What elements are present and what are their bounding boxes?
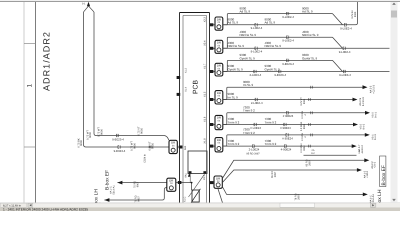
wire upper run (228, 112, 366, 114)
svg-text:04: 04 (172, 144, 175, 147)
svg-text:# L0E24: # L0E24 (250, 127, 261, 130)
wire upper tick (311, 86, 312, 89)
svg-text:9000: 9000 (354, 12, 357, 18)
svg-text:0.75 VT: 0.75 VT (300, 97, 303, 105)
wire riser (223, 87, 228, 99)
svg-text:9-L0E2-4: 9-L0E2-4 (339, 51, 351, 54)
svg-text:E014-A1: E014-A1 (372, 194, 375, 204)
svg-text:04: 04 (218, 95, 221, 98)
wire upper run (228, 36, 333, 38)
pin square X2.1 (210, 181, 214, 184)
svg-text:GynW SL 9: GynW SL 9 (228, 68, 244, 72)
cable W1 pair split (84, 6, 95, 12)
svg-text:9-E023-4: 9-E023-4 (112, 138, 124, 141)
svg-text:X1.8: X1.8 (203, 138, 206, 143)
pin wire X1.7 (210, 71, 216, 73)
svg-text:9 1: 9 1 (82, 3, 86, 6)
svg-text:9005: 9005 (140, 128, 143, 134)
svg-text:X2.1: X2.1 (203, 175, 206, 180)
svg-text:4: 4 (304, 136, 307, 138)
connector inline lower (254, 123, 256, 126)
pin wire X3.4 (210, 47, 216, 49)
connector inline lower (284, 145, 286, 148)
wire riser (223, 37, 228, 48)
svg-text:9005: 9005 (151, 143, 154, 149)
svg-text:9-E023-4: 9-E023-4 (114, 150, 126, 153)
svg-text:04: 04 (218, 67, 221, 70)
wire lower run (223, 124, 354, 126)
svg-text:NBrCw SL 9: NBrCw SL 9 (240, 34, 257, 38)
junction dot (191, 182, 193, 184)
svg-text:X3.3: X3.3 (203, 17, 206, 22)
svg-text:9000: 9000 (89, 132, 92, 138)
arrow to -box LH (104, 198, 109, 202)
connector inline upper (286, 111, 288, 114)
svg-text:Tmm 9 2: Tmm 9 2 (265, 121, 277, 125)
svg-text:X1.7: X1.7 (203, 64, 206, 69)
svg-text:AA 1-C: AA 1-C (369, 195, 372, 203)
svg-text:9004: 9004 (303, 124, 306, 130)
svg-text:2-L0E3-4: 2-L0E3-4 (250, 74, 262, 77)
svg-text:9A2: 9A2 (184, 146, 187, 150)
svg-text:2.0 WH: 2.0 WH (301, 111, 304, 119)
svg-text:DR: DR (217, 65, 221, 68)
vscroll up button (392, 3, 396, 5)
horizontal scrollbar row (0, 203, 400, 208)
svg-text:9000: 9000 (228, 18, 235, 22)
wire upper run (228, 134, 366, 136)
svg-text:9000: 9000 (240, 7, 247, 11)
wire RD to -box LH (104, 188, 166, 200)
connector U2L (167, 178, 176, 191)
vscroll down button (392, 199, 396, 202)
svg-text:04: 04 (218, 21, 221, 24)
pin wire X2.1 (210, 182, 215, 184)
svg-text:X3.4: X3.4 (203, 40, 206, 45)
resistor R1 diagonal (191, 189, 201, 203)
pin square X1.8 (210, 145, 214, 148)
wire lower run (223, 99, 353, 101)
svg-text:2A: 2A (312, 149, 315, 152)
svg-text:9300: 9300 (228, 65, 235, 69)
hscroll thumb (280, 203, 315, 207)
svg-text:Im SL 9: Im SL 9 (243, 84, 254, 88)
svg-text:NBrCw SL 9: NBrCw SL 9 (265, 45, 282, 49)
svg-text:J300: J300 (302, 30, 309, 34)
svg-text:7300: 7300 (243, 106, 250, 110)
connector inline lower (252, 145, 254, 148)
wire RD to B-box EF (117, 182, 166, 184)
svg-text:AA 1-C: AA 1-C (110, 186, 113, 194)
wire lower run (223, 24, 356, 26)
connector inline upper (287, 36, 289, 39)
svg-text:B-box EF: B-box EF (381, 165, 387, 185)
svg-text:J300: J300 (228, 42, 235, 46)
svg-text:X1.4: X1.4 (184, 87, 187, 92)
PCB inner top edge (183, 15, 207, 17)
svg-text:9-L0E2-4: 9-L0E2-4 (282, 40, 294, 43)
wire WT vertical leg (93, 12, 95, 134)
svg-text:X1.2: X1.2 (184, 68, 187, 73)
pin wire X1.5 (210, 99, 216, 101)
module U3 inside PCB (188, 151, 207, 174)
wire riser (223, 113, 228, 125)
svg-text:DR: DR (216, 177, 220, 180)
svg-text:Ad SL 9: Ad SL 9 (240, 10, 251, 14)
wire merge diagonal (333, 60, 343, 71)
svg-text:A2: A2 (361, 150, 364, 153)
scrollbar corner (377, 203, 400, 208)
page size label (1, 203, 27, 207)
svg-text:9000: 9000 (133, 143, 136, 149)
wire lower run (223, 47, 390, 49)
svg-text:Tmm 9 2: Tmm 9 2 (228, 143, 240, 147)
svg-text:1 - 2401 INTERIOR 24000 2400 L: 1 - 2401 INTERIOR 24000 2400 LH-RH ADR1/… (3, 208, 88, 211)
svg-text:Tmm 9 2: Tmm 9 2 (265, 143, 277, 147)
svg-text:2-L0E24: 2-L0E24 (249, 149, 260, 152)
svg-text:DR: DR (217, 92, 221, 95)
connector inline upper (287, 59, 289, 62)
svg-text:VS-2: VS-2 (360, 124, 363, 130)
wire BK vertical leg (83, 12, 85, 145)
svg-text:+24-2: +24-2 (361, 145, 364, 151)
svg-text:9-L0E2-4: 9-L0E2-4 (251, 51, 263, 54)
svg-text:9-L0E2-4: 9-L0E2-4 (340, 27, 352, 30)
wire riser (223, 14, 228, 25)
hscroll right button (371, 203, 376, 207)
net stub arrow inside PCB (188, 173, 191, 177)
pin square X1 bottom (178, 181, 182, 184)
svg-text:X1.6: X1.6 (203, 117, 206, 122)
svg-text:9004: 9004 (303, 145, 306, 151)
arrow to -box LH (363, 193, 368, 197)
PCB inner right edge (206, 16, 208, 203)
connector plug X1.6 (215, 115, 223, 129)
wire riser (223, 60, 228, 71)
svg-text:2.0 WH4: 2.0 WH4 (300, 143, 303, 152)
arrow right upper (365, 111, 370, 115)
svg-text:9-E023-4: 9-E023-4 (282, 63, 294, 66)
window top border (0, 0, 400, 2)
wire U to PCB connector (94, 134, 169, 141)
svg-text:DR: DR (217, 139, 221, 142)
component name B-box EF right (380, 156, 386, 187)
cable W1 off-page arrow (87, 2, 90, 6)
svg-text:AA 2-5: AA 2-5 (370, 86, 373, 93)
wire short net above fan (304, 154, 357, 156)
PCB inner left edge (182, 16, 184, 203)
svg-text:0.75 BK: 0.75 BK (351, 10, 354, 19)
svg-text:X1.5: X1.5 (203, 92, 206, 97)
arrow to B-box EF (117, 181, 122, 185)
svg-text:E014-A1: E014-A1 (112, 185, 115, 194)
wire U2L pin to PCB (176, 182, 192, 184)
svg-text:9000: 9000 (302, 7, 309, 11)
vscroll thumb (391, 11, 397, 18)
wire lower tick (309, 98, 310, 101)
wire riser (223, 135, 228, 146)
svg-text:9300: 9300 (302, 54, 309, 58)
connector plug X1.5 (215, 91, 223, 104)
connector U1L (169, 140, 177, 153)
svg-text:95 RD 2997: 95 RD 2997 (246, 152, 259, 155)
svg-text:J300: J300 (240, 30, 247, 34)
svg-text:9-L0E2-4: 9-L0E2-4 (282, 16, 294, 19)
svg-text:Ad SL 9: Ad SL 9 (302, 10, 313, 14)
frame row tick bottom (24, 146, 36, 148)
frame border line (35, 2, 37, 203)
svg-text:04: 04 (218, 44, 221, 47)
svg-text:NBrCw SL 9: NBrCw SL 9 (228, 45, 245, 49)
wire stub diagonal off box (218, 188, 223, 202)
svg-text:2997: 2997 (297, 194, 300, 200)
svg-text:PCB: PCB (193, 80, 200, 94)
svg-text:DR: DR (217, 42, 221, 45)
svg-text:# 90E24: # 90E24 (282, 137, 293, 140)
svg-text:2997: 2997 (308, 160, 311, 166)
sheet edge line (23, 2, 25, 203)
svg-text:GynW SL 9: GynW SL 9 (240, 57, 256, 61)
wire upper run (228, 13, 333, 15)
PCB outer left edge (179, 13, 181, 203)
svg-text:GynW SL 9: GynW SL 9 (265, 68, 281, 72)
svg-text:VS-1: VS-1 (371, 134, 374, 140)
module U3 pin bottom right (203, 171, 206, 173)
svg-text:DR: DR (217, 18, 221, 21)
svg-text:J300: J300 (265, 42, 272, 46)
svg-text:2.0 WH: 2.0 WH (301, 133, 304, 141)
svg-text:9-4-1: 9-4-1 (374, 112, 377, 118)
svg-text:9-L0E3-4: 9-L0E3-4 (339, 74, 351, 77)
connector inline lower (255, 23, 257, 26)
connector inline 9-E023-4 on wire L (118, 145, 120, 148)
svg-text:7300: 7300 (228, 139, 235, 143)
wire fan bottom (222, 187, 363, 195)
wire into PCB component (191, 183, 193, 190)
svg-text:# 90E24: # 90E24 (280, 127, 291, 130)
svg-text:+1M-2: +1M-2 (366, 171, 369, 178)
arrow to B-box EF (364, 158, 369, 162)
connector inline 9-E023-4 on wire U (116, 134, 118, 137)
svg-text:NBrCw SL 9: NBrCw SL 9 (302, 34, 319, 38)
arrow right lower (353, 123, 358, 127)
hscroll left button (28, 203, 33, 207)
svg-text:04: 04 (170, 182, 173, 185)
pin square X1.7 (210, 70, 214, 73)
svg-text:2997: 2997 (274, 172, 277, 178)
PCB outer right edge (209, 13, 211, 203)
svg-text:AA 1-2: AA 1-2 (363, 171, 366, 178)
module U3 pin bottom left (189, 171, 192, 173)
wire upper tick (311, 111, 312, 114)
pin square X1 (179, 146, 183, 149)
pin square X1.5 (210, 98, 214, 101)
svg-text:Tmm 9 2: Tmm 9 2 (228, 121, 240, 125)
svg-text:9300: 9300 (240, 54, 247, 58)
tick on wire L (150, 146, 151, 149)
svg-text:9A1: 9A1 (185, 173, 188, 177)
svg-text:4: 4 (304, 114, 307, 116)
wire fan middle (222, 170, 357, 183)
connector inline upper (287, 12, 289, 15)
svg-text:Tmm 9 2: Tmm 9 2 (243, 131, 255, 135)
svg-text:9000: 9000 (228, 93, 235, 97)
wire lower run (223, 71, 390, 73)
status bar (0, 208, 400, 212)
wire upper run (228, 86, 364, 88)
vertical scrollbar track (391, 2, 398, 203)
connector inline at merge (343, 70, 345, 73)
svg-text:9300: 9300 (265, 65, 272, 69)
wire module left pin down (189, 174, 191, 183)
svg-text:X1.C: X1.C (183, 196, 186, 202)
svg-text:7300: 7300 (265, 139, 272, 143)
svg-text:9-L0E2-4: 9-L0E2-4 (251, 27, 263, 30)
svg-text:8,27 x 11,69 in: 8,27 x 11,69 in (3, 204, 21, 207)
svg-text:7300: 7300 (243, 128, 250, 132)
wire U1L pin to PCB (177, 146, 180, 148)
svg-text:9000: 9000 (265, 18, 272, 22)
svg-text:DR: DR (217, 117, 221, 120)
wire module to resistor diagonal (189, 174, 205, 197)
svg-text:AA 2-N: AA 2-N (359, 98, 362, 106)
svg-text:7300: 7300 (265, 118, 272, 122)
svg-text:9000: 9000 (80, 140, 83, 146)
svg-text:9-4-3: 9-4-3 (374, 134, 377, 140)
PCB outer top edge (180, 12, 210, 14)
connector inline lower (279, 70, 281, 73)
connector inline lower (254, 70, 256, 73)
svg-text:9000: 9000 (100, 129, 103, 135)
svg-text:9-C10-9: 9-C10-9 (362, 97, 365, 106)
svg-text:+C2.0-3: +C2.0-3 (372, 85, 375, 94)
svg-text:VS-0: VS-0 (372, 112, 375, 118)
svg-text:ADR1/ADR2: ADR1/ADR2 (42, 31, 52, 91)
arrow right upper (363, 85, 368, 89)
connector plug X2.1 (214, 176, 222, 188)
svg-text:9000: 9000 (243, 80, 250, 84)
connector plug X3.3 (215, 17, 223, 30)
pin square X3.4 (210, 47, 214, 50)
connector inline at merge (344, 23, 346, 26)
wire merge diagonal (333, 37, 343, 48)
connector plug X3.4 (215, 40, 223, 53)
wire lower run (223, 145, 353, 147)
resistor R1 inside PCB (192, 190, 199, 202)
arrow right lower (353, 98, 358, 102)
wire upper tick (311, 134, 312, 137)
svg-text:9-2: 9-2 (311, 152, 315, 155)
connector inline lower (255, 98, 257, 101)
connector plug X1.8 (215, 138, 223, 152)
svg-text:DR: DR (169, 180, 173, 183)
pin wire X3.3 (210, 24, 216, 26)
frame row tick top (24, 43, 36, 45)
svg-text:# 90E24: # 90E24 (283, 115, 294, 118)
pin square X3.3 (210, 23, 214, 26)
svg-text:04: 04 (218, 142, 221, 145)
wire merge diagonal (333, 14, 343, 25)
svg-text:Im SL 9: Im SL 9 (228, 96, 239, 100)
svg-text:04: 04 (218, 119, 221, 122)
svg-text:AA 2-2: AA 2-2 (371, 161, 374, 168)
wire fan top (222, 160, 365, 178)
connector inline upper (286, 133, 288, 136)
stub pin X1.2 (177, 76, 181, 79)
svg-text:9-E023-4: 9-E023-4 (274, 74, 286, 77)
svg-text:9004: 9004 (303, 99, 306, 105)
arrow right lower (352, 144, 357, 148)
pin square X1.6 (210, 123, 214, 126)
svg-text:4-90E24: 4-90E24 (281, 149, 292, 152)
svg-text:1: 1 (26, 84, 33, 88)
arrow right upper (365, 133, 370, 137)
connector inline lower (284, 123, 286, 126)
svg-text:2-L0E2-4: 2-L0E2-4 (251, 102, 263, 105)
wire L to PCB connector (84, 145, 170, 148)
svg-text:Ad SL 9: Ad SL 9 (228, 21, 239, 25)
svg-text:2.0 WH4: 2.0 WH4 (300, 122, 303, 131)
svg-text:Tmm 9 2: Tmm 9 2 (243, 109, 255, 113)
svg-text:+24-2: +24-2 (374, 162, 377, 168)
connector inline lower (255, 47, 257, 50)
svg-text:9-4-2: 9-4-2 (362, 124, 365, 130)
svg-text:9907: 9907 (137, 196, 140, 202)
svg-text:C024 in: C024 in (144, 154, 147, 163)
connector inline at merge (343, 47, 345, 50)
wire lower tick (309, 145, 310, 148)
wire to top edge (356, 2, 358, 25)
wire upper run (228, 59, 333, 61)
svg-text:9907: 9907 (136, 182, 139, 188)
svg-text:7300: 7300 (228, 118, 235, 122)
stub pin X1.4 (177, 93, 181, 96)
hscroll track (33, 203, 370, 207)
pin wire X1.8 (210, 145, 216, 147)
arrow to 1M-2 (357, 168, 362, 172)
svg-text:GynW SL 9: GynW SL 9 (302, 57, 318, 61)
svg-text:DR: DR (171, 142, 175, 145)
connector plug X1.7 (215, 63, 223, 76)
pin wire X1.6 (210, 124, 216, 126)
wire lower tick (309, 123, 310, 126)
svg-text:9-4: 9-4 (358, 150, 361, 154)
svg-text:Ad SL 9: Ad SL 9 (265, 21, 276, 25)
